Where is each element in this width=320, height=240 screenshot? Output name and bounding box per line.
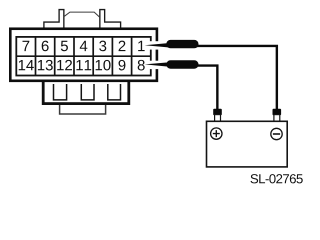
probe 2 grip: [166, 60, 198, 68]
white gap where probe 2 crosses borders: [149, 61, 160, 69]
skirt hole 2: [81, 84, 94, 100]
probe 1 tip (into pin 1): [145, 43, 170, 48]
figure label SL-02765: [251, 174, 303, 183]
battery plus clamp (black square): [213, 109, 222, 115]
pin table outer border: [16, 37, 151, 76]
pin numbers row 2 (14 13 12 11 10 9 8): [19, 60, 145, 71]
battery plus terminal symbol: [211, 128, 222, 139]
wire from probe 2 to battery plus: [197, 66, 217, 110]
wire from probe 1 to battery minus: [197, 46, 277, 110]
battery plus post: [215, 115, 221, 122]
probe 1 grip: [166, 40, 198, 48]
pin numbers row 1 (7 6 5 4 3 2 1): [23, 41, 145, 52]
connector lower skirt: [43, 80, 129, 104]
skirt hole 1: [54, 84, 67, 100]
connector latch right tab and right shoulder: [100, 10, 121, 28]
connector body (outer box): [10, 29, 157, 81]
pin table column dividers: [36, 37, 132, 76]
white gap where probe 1 crosses borders: [149, 41, 160, 49]
connector latch left shoulder and left tab: [44, 10, 64, 28]
connector bottom tab (small lower tongue): [60, 104, 106, 114]
battery minus terminal symbol: [271, 128, 282, 139]
battery minus post: [274, 115, 280, 122]
skirt hole 3: [108, 84, 121, 100]
probe 2 tip (into pin 8): [145, 62, 170, 66]
battery minus clamp (black square): [273, 109, 282, 115]
connector latch center ramp (trapezoid): [64, 12, 100, 17]
battery body: [207, 121, 288, 167]
pin table row divider: [16, 55, 151, 57]
